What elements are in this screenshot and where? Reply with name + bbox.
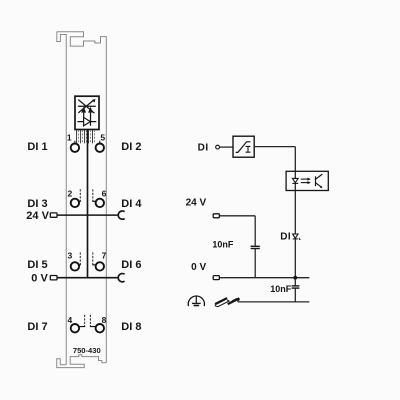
svg-text:10nF: 10nF: [212, 239, 234, 249]
svg-text:8: 8: [102, 315, 107, 325]
svg-text:1: 1: [67, 132, 72, 142]
svg-text:DI 7: DI 7: [27, 321, 47, 333]
svg-text:24 V: 24 V: [26, 210, 49, 222]
svg-text:DI 3: DI 3: [27, 198, 47, 210]
svg-text:DI 6: DI 6: [121, 259, 141, 271]
svg-text:0 V: 0 V: [31, 273, 48, 285]
svg-text:DI 5: DI 5: [27, 259, 47, 271]
svg-text:DI 8: DI 8: [121, 321, 141, 333]
svg-text:750-430: 750-430: [73, 346, 101, 355]
svg-text:3: 3: [68, 251, 73, 261]
svg-text:7: 7: [102, 251, 107, 261]
svg-text:0 V: 0 V: [191, 262, 206, 273]
svg-text:DI 1: DI 1: [27, 141, 47, 153]
svg-text:DI: DI: [280, 232, 291, 243]
svg-text:DI: DI: [198, 143, 209, 154]
svg-text:2: 2: [68, 188, 73, 198]
svg-text:6: 6: [102, 188, 107, 198]
svg-text:10nF: 10nF: [270, 284, 292, 294]
svg-text:5: 5: [100, 132, 105, 142]
svg-text:4: 4: [68, 315, 73, 325]
svg-text:DI 2: DI 2: [121, 141, 141, 153]
svg-text:24 V: 24 V: [186, 198, 207, 209]
svg-text:DI 4: DI 4: [121, 198, 142, 210]
